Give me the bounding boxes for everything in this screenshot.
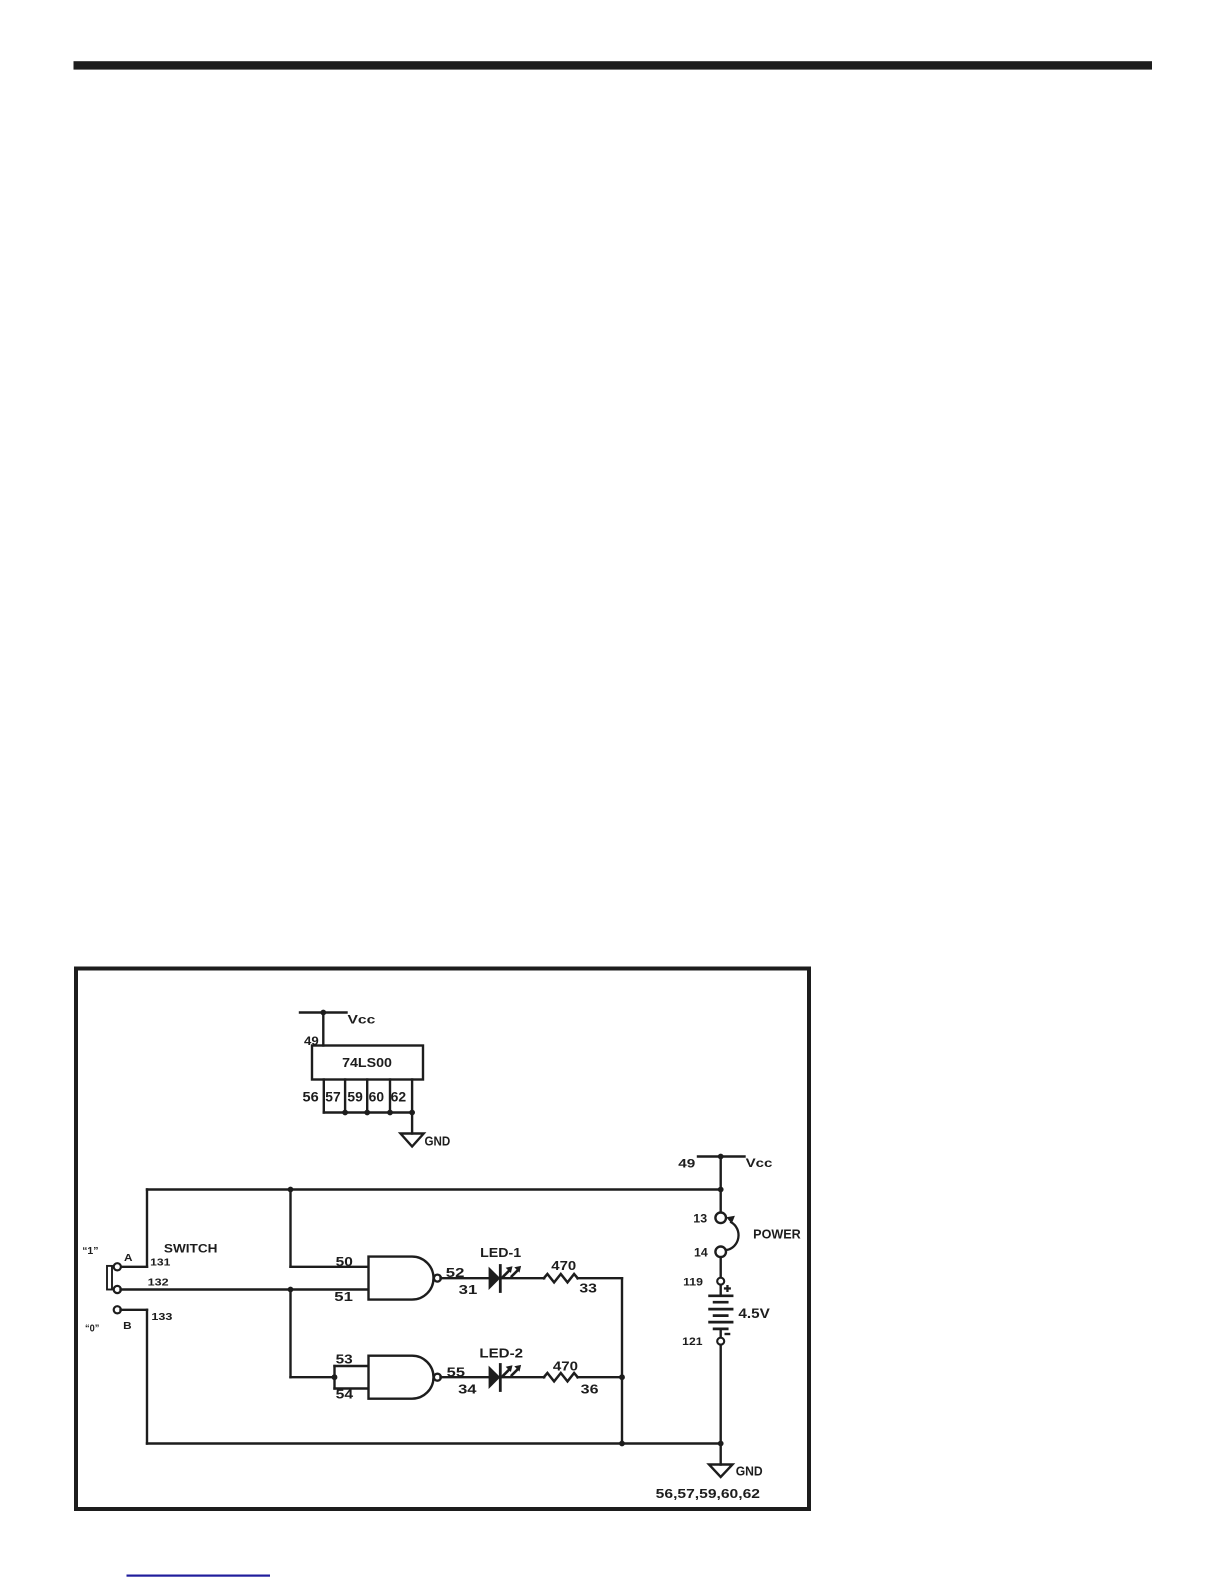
wire left vertical A to top rail [146, 1190, 148, 1267]
wire resistor R2 to right drop [578, 1376, 623, 1378]
svg-text:LED-2: LED-2 [479, 1346, 523, 1361]
wire bus to ground [411, 1113, 413, 1134]
svg-text:14: 14 [694, 1247, 708, 1259]
svg-text:SWITCH: SWITCH [164, 1244, 218, 1256]
terminal B circle [114, 1306, 121, 1313]
LED-1 emission arrow 2 [512, 1271, 517, 1276]
battery plus sign [724, 1287, 731, 1289]
wire gate2 input 54 stub [335, 1387, 369, 1389]
wire bottom rail [147, 1442, 721, 1444]
svg-text:GND: GND [425, 1134, 451, 1149]
svg-text:56,57,59,60,62: 56,57,59,60,62 [656, 1486, 760, 1501]
svg-text:4.5V: 4.5V [738, 1306, 769, 1321]
LED-2 diode triangle [489, 1366, 501, 1389]
svg-text:60: 60 [369, 1090, 384, 1105]
svg-text:50: 50 [336, 1254, 353, 1269]
wire gate1 input 50 [291, 1266, 369, 1268]
battery terminal 119 circle [717, 1278, 724, 1285]
LED-1 cathode bar [499, 1266, 502, 1292]
svg-text:74LS00: 74LS00 [342, 1055, 392, 1070]
svg-text:59: 59 [347, 1090, 362, 1105]
node junction dot on IC Vcc bar [320, 1010, 326, 1016]
svg-text:GND: GND [736, 1464, 763, 1479]
svg-text:56: 56 [303, 1090, 320, 1105]
svg-text:36: 36 [581, 1382, 599, 1397]
wire drop 132 to gate2 inputs [289, 1290, 291, 1378]
svg-text:54: 54 [336, 1387, 354, 1402]
wire gate2 input tie vertical [333, 1366, 335, 1389]
wire left vertical B to bottom rail [146, 1310, 148, 1444]
junction dot 132 wire / gate2 drop [288, 1287, 294, 1293]
wire terminal B stub [121, 1309, 148, 1311]
svg-text:133: 133 [151, 1311, 172, 1323]
svg-text:13: 13 [693, 1213, 707, 1225]
wire terminal A stub [121, 1266, 148, 1268]
svg-text:57: 57 [325, 1090, 340, 1105]
wire drop from top rail to gate1 input 50 [289, 1190, 291, 1267]
wire Vcc bar (IC power) [300, 1011, 347, 1013]
svg-text:33: 33 [579, 1281, 597, 1296]
svg-text:49: 49 [678, 1159, 695, 1171]
battery minus sign [725, 1333, 731, 1335]
wire 119 to battery [720, 1285, 722, 1296]
wire gate2 input 53 stub [335, 1365, 369, 1367]
svg-text:A: A [124, 1253, 133, 1264]
svg-text:POWER: POWER [753, 1228, 801, 1242]
LED-1 diode triangle [489, 1267, 501, 1290]
junction dot pin62 bus [409, 1110, 415, 1116]
LED-2 emission arrow 1 [503, 1370, 508, 1375]
wire pin 59 [366, 1080, 368, 1113]
switch terminal 14 circle [715, 1247, 726, 1258]
junction dot right drop row2 [619, 1374, 625, 1380]
terminal A circle [114, 1263, 121, 1270]
junction dot right drop bottom rail [619, 1441, 625, 1447]
svg-text:31: 31 [459, 1282, 478, 1297]
svg-text:55: 55 [447, 1365, 465, 1380]
svg-text:B: B [123, 1321, 132, 1332]
IC U1 74LS00 body [312, 1046, 423, 1080]
LED-2 cathode bar [499, 1365, 502, 1391]
wire resistor R1 to right drop [578, 1277, 623, 1279]
wire LED-2 to resistor [500, 1376, 544, 1378]
wire gate1 output [441, 1277, 489, 1279]
svg-text:LED-1: LED-1 [480, 1245, 521, 1260]
battery BT1 plates [710, 1296, 733, 1329]
svg-text:Vcc: Vcc [348, 1015, 377, 1027]
junction dot top rail / power rail [718, 1187, 724, 1193]
svg-text:470: 470 [551, 1258, 576, 1273]
svg-text:“0”: “0” [85, 1323, 99, 1335]
wire gate2 input feed [291, 1376, 335, 1378]
power switch arrowhead [726, 1216, 735, 1224]
wire Vcc bar (power rail) [698, 1155, 745, 1157]
NAND gate U1a inversion bubble [434, 1275, 441, 1282]
wire pin 56 [323, 1080, 325, 1113]
svg-text:119: 119 [683, 1276, 703, 1288]
svg-text:52: 52 [446, 1265, 465, 1280]
wire ground bus under IC [324, 1111, 412, 1113]
wire gate2 output [441, 1376, 489, 1378]
NAND gate U1b inversion bubble [434, 1374, 441, 1381]
wire battery - stub [720, 1329, 722, 1338]
wire pin 62 [411, 1080, 413, 1113]
junction dot gate2 input tie [332, 1374, 338, 1380]
ground symbol (IC) [401, 1134, 424, 1147]
ground symbol (rail) [709, 1465, 733, 1478]
svg-text:132: 132 [148, 1277, 169, 1289]
wire LED-1 to resistor [500, 1277, 544, 1279]
junction dot pin57 bus [342, 1110, 348, 1116]
svg-text:121: 121 [682, 1336, 702, 1348]
svg-text:131: 131 [150, 1257, 170, 1269]
power switch blade arc [726, 1222, 738, 1250]
LED-1 emission arrow 1 [503, 1271, 508, 1276]
wire Vcc to switch 13 [720, 1157, 722, 1213]
resistor R2 zigzag [544, 1373, 578, 1381]
wire pin 57 [344, 1080, 346, 1113]
terminal 132 circle [114, 1286, 121, 1293]
switch terminal 13 circle [715, 1213, 726, 1224]
svg-text:62: 62 [391, 1090, 407, 1105]
junction dot bottom rail / battery [718, 1441, 724, 1447]
wire top rail (A terminal to Vcc) [147, 1188, 721, 1190]
resistor R1 zigzag [544, 1274, 578, 1282]
svg-text:34: 34 [458, 1382, 477, 1397]
svg-text:51: 51 [334, 1289, 353, 1304]
battery terminal 121 circle [717, 1338, 724, 1345]
wire pin 49 vertical to IC [322, 1013, 324, 1046]
junction dot pin60 bus [387, 1110, 393, 1116]
NAND gate U1a body [369, 1257, 434, 1300]
wire 121 to ground [720, 1345, 722, 1465]
wire 132 common to gate1 input 51 [121, 1288, 369, 1290]
svg-text:53: 53 [336, 1352, 353, 1367]
junction dot top rail / gate1 input drop [288, 1187, 294, 1193]
junction dot pin59 bus [364, 1110, 370, 1116]
LED-2 emission arrow 2 [512, 1370, 517, 1375]
junction dot power Vcc bar [718, 1154, 724, 1160]
NAND gate U1b body [369, 1356, 434, 1399]
wire pin 60 [389, 1080, 391, 1113]
svg-text:“1”: “1” [82, 1245, 98, 1257]
wire right drop vertical [621, 1278, 623, 1443]
wire switch 14 to battery + [720, 1257, 722, 1278]
svg-text:470: 470 [553, 1359, 578, 1374]
switch pole bracket [107, 1266, 112, 1290]
svg-text:Vcc: Vcc [746, 1158, 774, 1170]
